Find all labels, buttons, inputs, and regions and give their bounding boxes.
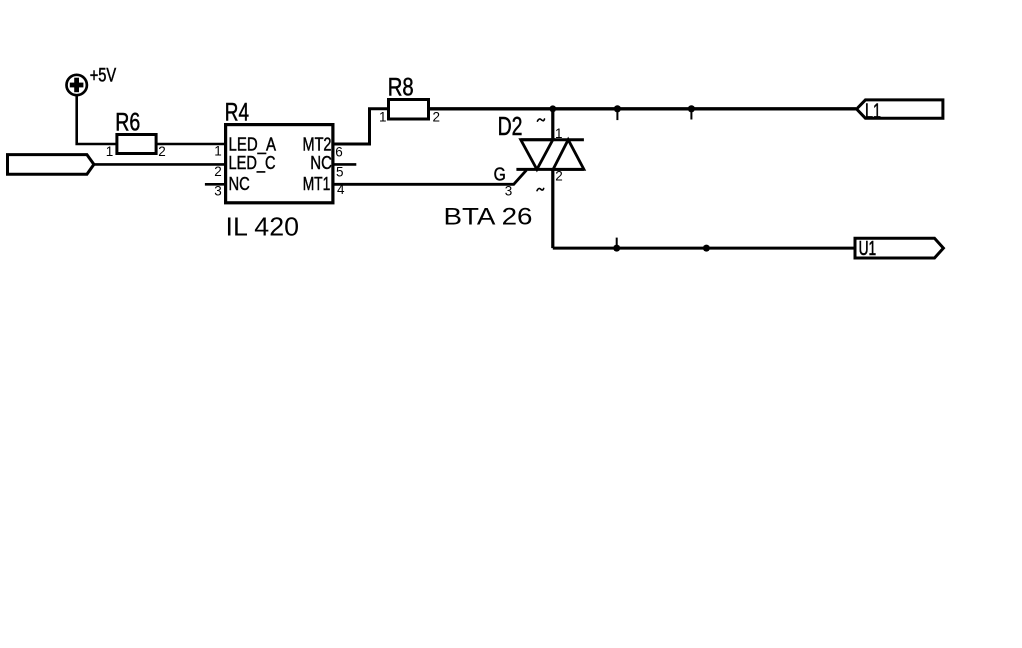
svg-text:5: 5 bbox=[336, 164, 344, 179]
svg-text:IL 420: IL 420 bbox=[226, 213, 300, 241]
svg-text:1: 1 bbox=[214, 143, 222, 158]
svg-text:MT1: MT1 bbox=[303, 173, 331, 194]
svg-text:LED_C: LED_C bbox=[229, 152, 276, 174]
svg-text:3: 3 bbox=[214, 184, 222, 199]
svg-text:3: 3 bbox=[505, 183, 513, 198]
svg-text:D2: D2 bbox=[498, 113, 523, 141]
svg-text:R6: R6 bbox=[115, 109, 140, 137]
svg-text:U1: U1 bbox=[859, 237, 877, 260]
svg-text:6: 6 bbox=[335, 144, 343, 159]
svg-text:2: 2 bbox=[158, 144, 166, 159]
svg-text:1: 1 bbox=[555, 126, 563, 141]
svg-text:NC: NC bbox=[229, 173, 250, 194]
svg-text:2: 2 bbox=[433, 109, 441, 124]
svg-text:4: 4 bbox=[337, 182, 345, 197]
svg-text:R4: R4 bbox=[225, 100, 249, 127]
svg-text:1: 1 bbox=[379, 109, 387, 124]
svg-text:2: 2 bbox=[214, 164, 222, 179]
svg-text:2: 2 bbox=[555, 168, 563, 183]
svg-text:1: 1 bbox=[106, 144, 114, 159]
svg-text:+5V: +5V bbox=[90, 64, 117, 86]
svg-text:G: G bbox=[494, 164, 506, 185]
svg-text:MT2: MT2 bbox=[303, 133, 332, 154]
svg-text:R8: R8 bbox=[388, 74, 414, 101]
svg-text:NC: NC bbox=[310, 152, 332, 173]
svg-text:L1: L1 bbox=[865, 99, 881, 123]
svg-text:BTA 26: BTA 26 bbox=[444, 205, 533, 231]
